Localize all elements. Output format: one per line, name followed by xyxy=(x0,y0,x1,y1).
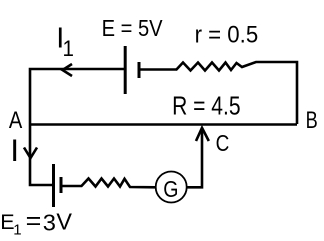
svg-text:1: 1 xyxy=(13,222,21,239)
svg-text:=: = xyxy=(26,208,42,235)
svg-text:A: A xyxy=(9,107,22,134)
svg-text:C: C xyxy=(216,130,230,156)
svg-text:1: 1 xyxy=(63,36,74,61)
svg-text:R = 4.5: R = 4.5 xyxy=(172,93,240,121)
svg-text:B: B xyxy=(306,108,318,134)
svg-text:G: G xyxy=(163,176,178,202)
svg-text:I: I xyxy=(10,132,19,168)
svg-text:3: 3 xyxy=(43,209,56,235)
svg-text:r = 0.5: r = 0.5 xyxy=(195,22,259,49)
svg-text:V: V xyxy=(56,208,72,234)
svg-text:E = 5V: E = 5V xyxy=(102,15,163,41)
